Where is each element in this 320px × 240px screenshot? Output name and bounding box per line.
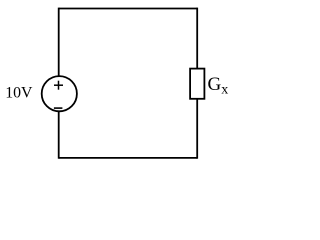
wire right vertical upper	[196, 8, 198, 69]
wire left vertical upper	[58, 8, 60, 76]
voltage source V1	[42, 76, 77, 111]
wire left vertical lower	[58, 112, 60, 159]
polarity plus	[54, 81, 63, 90]
conductance Gx box	[190, 69, 204, 99]
wire right vertical lower	[196, 99, 198, 159]
wire bottom horizontal	[59, 157, 198, 159]
svg-text:10V: 10V	[5, 85, 33, 102]
wire top horizontal	[59, 8, 198, 10]
svg-text:Gx: Gx	[208, 74, 229, 97]
polarity minus	[54, 107, 63, 109]
